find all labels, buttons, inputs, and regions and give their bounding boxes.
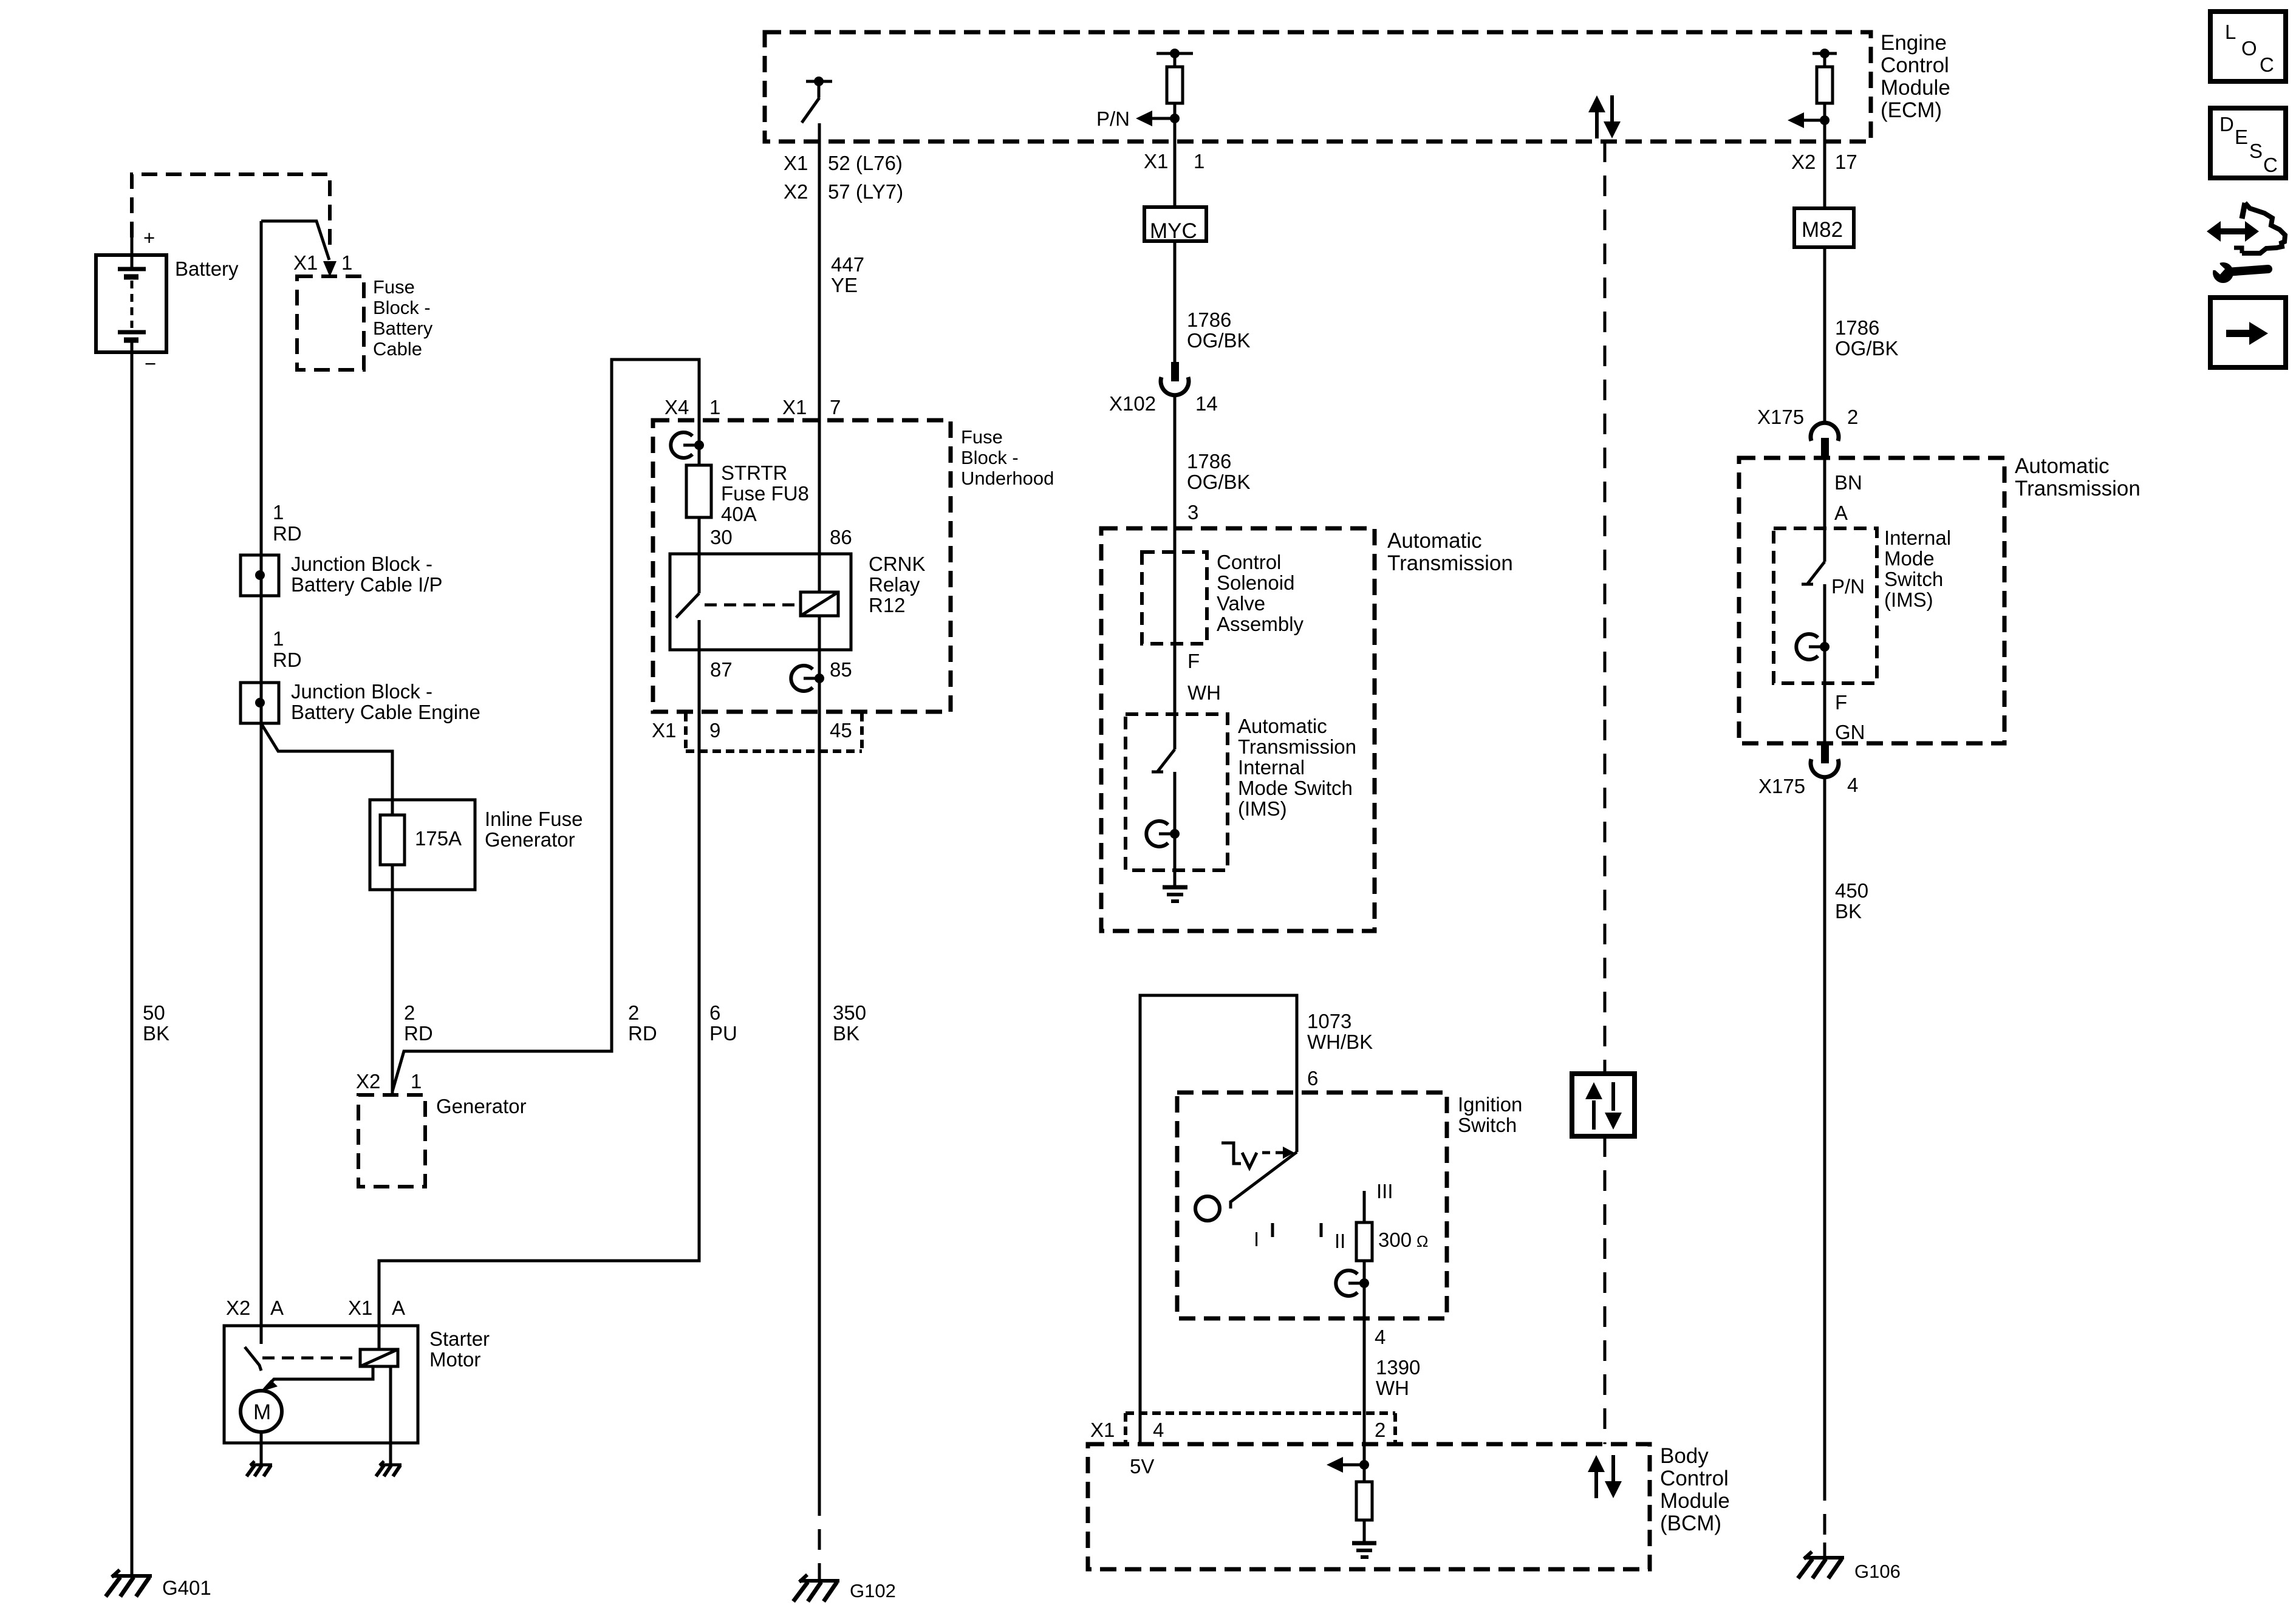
svg-text:Mode Switch: Mode Switch [1238, 777, 1353, 799]
svg-text:Module: Module [1881, 76, 1950, 100]
svg-text:P/N: P/N [1096, 107, 1130, 130]
svg-text:Underhood: Underhood [961, 468, 1054, 489]
clip junction (IMS middle) [1146, 821, 1180, 847]
svg-text:GN: GN [1835, 721, 1865, 743]
svg-text:BK: BK [143, 1022, 169, 1045]
connector X1 bracket (fuse block underhood bottom) [686, 713, 862, 751]
svg-text:S: S [2249, 140, 2263, 162]
svg-text:R12: R12 [869, 594, 906, 616]
svg-text:X2: X2 [226, 1297, 250, 1319]
svg-text:Inline Fuse: Inline Fuse [485, 808, 583, 830]
svg-text:X102: X102 [1109, 392, 1156, 415]
body control module BCM (dashed box) [1088, 1444, 1650, 1569]
wire 50 BK battery negative to G401 [131, 340, 134, 1576]
svg-text:X1: X1 [348, 1297, 372, 1319]
resistor (ECM internal, right) [1817, 53, 1833, 141]
battery Battery [96, 227, 239, 375]
wire 1390 WH ignition to BCM pin 2 [1363, 1318, 1366, 1465]
icon box LOC [2210, 12, 2286, 81]
ECM starter driver switch [802, 77, 832, 123]
svg-text:1390: 1390 [1376, 1356, 1420, 1379]
svg-text:II: II [1334, 1230, 1345, 1252]
label Fuse Block - Underhood [961, 426, 1054, 489]
starter solenoid dashed link [262, 1357, 360, 1360]
ground (IMS internal, 3-bar) [1163, 887, 1187, 901]
svg-text:M: M [253, 1400, 271, 1424]
svg-text:Control: Control [1217, 551, 1281, 573]
IMS switch blade [1152, 749, 1175, 834]
serial data link box with arrows [1572, 1074, 1635, 1136]
svg-text:F: F [1187, 650, 1200, 672]
svg-text:G102: G102 [850, 1580, 896, 1601]
svg-text:52 (L76): 52 (L76) [828, 152, 903, 174]
svg-text:1786: 1786 [1835, 316, 1879, 339]
label Ignition Switch [1458, 1093, 1522, 1136]
pin labels X1 52 (L76) / X2 57 (LY7) [784, 152, 903, 203]
internal mode switch IMS (dashed box, right) [1774, 528, 1877, 683]
svg-text:(BCM): (BCM) [1660, 1512, 1721, 1535]
svg-text:YE: YE [831, 274, 858, 296]
relay coil [801, 592, 838, 616]
svg-text:4: 4 [1847, 774, 1858, 796]
wire inline fuse to generator X2-1 [391, 865, 394, 1093]
wire IMS to internal ground [1174, 834, 1177, 887]
svg-text:5V: 5V [1130, 1455, 1154, 1478]
svg-text:7: 7 [830, 396, 841, 418]
ground G102 [793, 1575, 896, 1601]
svg-text:Motor: Motor [429, 1348, 480, 1371]
resistor (ECM internal, P/N) [1167, 53, 1183, 141]
svg-text:45: 45 [830, 719, 852, 742]
svg-text:1: 1 [273, 501, 284, 523]
svg-text:X1: X1 [1090, 1419, 1115, 1441]
svg-text:OG/BK: OG/BK [1835, 337, 1899, 360]
ground (starter motor left) [247, 1461, 272, 1476]
clip junction on relay 85 [791, 666, 824, 691]
relay CRNK R12 box [670, 553, 926, 650]
automatic transmission (dashed box, middle) [1101, 528, 1375, 931]
svg-text:BK: BK [833, 1022, 859, 1045]
svg-text:G106: G106 [1854, 1561, 1901, 1582]
svg-text:Battery: Battery [175, 257, 239, 280]
ignition switch (dashed box) [1177, 1093, 1447, 1318]
svg-text:Internal: Internal [1238, 756, 1305, 779]
svg-text:Module: Module [1660, 1489, 1730, 1513]
svg-text:1: 1 [709, 396, 720, 418]
svg-text:Cable: Cable [373, 338, 422, 360]
svg-text:Fuse: Fuse [961, 426, 1003, 448]
svg-text:Block -: Block - [961, 447, 1019, 468]
BCM input arrow on 1390 WH [1327, 1457, 1369, 1473]
svg-text:Generator: Generator [436, 1095, 527, 1117]
engine control module ECM (dashed box) [765, 32, 1871, 141]
svg-text:OG/BK: OG/BK [1187, 329, 1251, 352]
wire F GN to X175-4 [1823, 647, 1826, 745]
wire through solenoid assembly [1174, 528, 1177, 749]
svg-text:4: 4 [1375, 1326, 1385, 1348]
svg-text:40A: 40A [721, 503, 757, 525]
svg-text:CRNK: CRNK [869, 553, 926, 575]
label Fuse Block - Battery Cable [373, 276, 433, 360]
starter motor [224, 1326, 490, 1443]
wire ECM X1-1 to MYC [1174, 141, 1177, 207]
svg-text:Battery Cable Engine: Battery Cable Engine [291, 701, 480, 723]
clip junction (IMS right) [1796, 634, 1830, 660]
svg-text:MYC: MYC [1150, 219, 1197, 243]
splice pack M82 [1794, 208, 1854, 247]
svg-text:RD: RD [273, 522, 302, 545]
svg-text:BK: BK [1835, 900, 1862, 922]
connector X175 pin 2 [1757, 406, 1858, 456]
svg-text:Valve: Valve [1217, 592, 1265, 615]
fuse STRTR FU8 40A [686, 420, 809, 554]
connector X1 bracket (BCM top) [1126, 1413, 1395, 1444]
svg-text:D: D [2219, 113, 2234, 135]
svg-text:Engine: Engine [1881, 31, 1947, 55]
label Automatic Transmission Internal Mode Switch (IMS) [1238, 715, 1356, 820]
svg-text:X1: X1 [782, 396, 807, 418]
svg-text:Junction Block -: Junction Block - [291, 680, 432, 703]
ground G106 [1798, 1552, 1901, 1582]
svg-text:Generator: Generator [485, 828, 575, 851]
svg-text:Ignition: Ignition [1458, 1093, 1522, 1116]
automatic transmission (dashed box, right) [1739, 458, 2004, 743]
svg-text:1: 1 [1194, 150, 1204, 172]
icon double arrow [2207, 221, 2259, 242]
svg-text:Relay: Relay [869, 573, 920, 596]
svg-text:1: 1 [411, 1070, 422, 1093]
connector X102 pin 14 [1109, 362, 1218, 528]
wire 1073 WH/BK BCM X1-4 to ignition switch pin 6 [1140, 995, 1297, 1444]
svg-text:17: 17 [1835, 151, 1857, 173]
svg-text:(IMS): (IMS) [1884, 588, 1933, 611]
ground (starter motor right) [376, 1461, 401, 1476]
svg-text:C: C [2263, 154, 2278, 176]
splice pack MYC [1144, 207, 1206, 243]
icon box DESC [2210, 108, 2286, 178]
svg-text:1: 1 [341, 251, 352, 274]
junction block - battery cable I/P [241, 553, 442, 596]
svg-text:A: A [1834, 502, 1848, 524]
relay dashed link [705, 604, 800, 607]
svg-text:Solenoid: Solenoid [1217, 571, 1294, 594]
svg-text:85: 85 [830, 658, 852, 681]
svg-text:350: 350 [833, 1001, 866, 1024]
svg-text:30: 30 [710, 526, 733, 548]
svg-text:Automatic: Automatic [1238, 715, 1327, 737]
IMS (dashed box, middle) [1126, 714, 1228, 870]
wire ECM X2-17 to M82 [1823, 141, 1826, 208]
svg-text:X2: X2 [356, 1070, 380, 1093]
svg-text:C: C [2260, 53, 2274, 76]
svg-text:Body: Body [1660, 1444, 1709, 1468]
svg-text:3: 3 [1187, 501, 1198, 523]
clip junction (ignition switch) [1336, 1270, 1369, 1296]
svg-text:X4: X4 [665, 396, 689, 418]
svg-text:Battery: Battery [373, 318, 433, 339]
wire 447 YE ECM to relay coil 86 [818, 123, 821, 592]
wire 1786 OG/BK M82 to X175-2 [1823, 247, 1826, 423]
wire BN into IMS [1823, 456, 1826, 562]
svg-text:RD: RD [628, 1022, 657, 1045]
svg-text:4: 4 [1153, 1419, 1164, 1441]
wire 350 BK relay 85 to G102 [818, 616, 821, 1581]
svg-text:OG/BK: OG/BK [1187, 471, 1251, 493]
svg-text:X2: X2 [1791, 151, 1816, 173]
generator (dashed box) [358, 1095, 425, 1187]
BCM serial data arrows [1588, 1455, 1622, 1498]
label Control Solenoid Valve Assembly [1217, 551, 1304, 635]
label Body Control Module (BCM) [1660, 1444, 1730, 1535]
label Engine Control Module (ECM) [1881, 31, 1950, 122]
svg-text:Battery Cable I/P: Battery Cable I/P [291, 573, 442, 596]
svg-text:+: + [143, 227, 155, 249]
wire solenoid to ground (right) [389, 1366, 392, 1465]
svg-text:2: 2 [628, 1001, 639, 1024]
ECM right input arrow [1788, 112, 1830, 128]
svg-text:Control: Control [1660, 1467, 1729, 1490]
resistor 300 ohm [1356, 1191, 1428, 1318]
relay contact blade [676, 554, 699, 650]
svg-text:X175: X175 [1757, 406, 1804, 428]
icon wrench [2209, 259, 2268, 283]
svg-text:447: 447 [831, 253, 864, 276]
svg-text:2: 2 [1847, 406, 1858, 428]
svg-text:F: F [1835, 691, 1847, 714]
svg-text:STRTR: STRTR [721, 462, 787, 484]
wire 2 RD junction block engine to inline fuse [262, 724, 392, 815]
svg-text:I: I [1254, 1228, 1259, 1250]
svg-text:14: 14 [1195, 392, 1218, 415]
battery dashed positive cable [132, 174, 330, 250]
svg-text:Fuse FU8: Fuse FU8 [721, 482, 809, 505]
svg-text:1: 1 [273, 627, 284, 650]
svg-text:Ω: Ω [1416, 1232, 1428, 1250]
svg-text:Automatic: Automatic [2015, 454, 2110, 478]
svg-text:300: 300 [1378, 1229, 1412, 1251]
svg-text:2: 2 [404, 1001, 415, 1024]
svg-text:Transmission: Transmission [1238, 735, 1356, 758]
ECM P-N output: junction bar [1157, 49, 1193, 58]
ECM serial data arrows [1588, 95, 1621, 138]
svg-text:Internal: Internal [1884, 527, 1951, 549]
icon vehicle outline [2234, 203, 2285, 253]
wire 450 BK to G106 [1823, 778, 1826, 1558]
svg-text:1786: 1786 [1187, 309, 1231, 331]
svg-text:X1: X1 [1144, 150, 1168, 172]
serial data dashed line ECM to BCM [1604, 141, 1607, 1444]
label Internal Mode Switch (IMS) [1884, 527, 1951, 611]
svg-text:A: A [392, 1297, 405, 1319]
svg-text:9: 9 [709, 719, 720, 742]
wire motor to ground [260, 1432, 263, 1465]
motor M [241, 1391, 282, 1432]
fuse block - battery cable (dashed box) [297, 276, 364, 370]
clip junction on X4-1 feed [671, 432, 704, 458]
svg-text:X1: X1 [293, 251, 318, 274]
svg-text:6: 6 [1307, 1067, 1318, 1089]
inline fuse generator 175A [370, 800, 583, 890]
svg-text:−: − [145, 352, 156, 375]
svg-text:O: O [2241, 37, 2257, 60]
svg-text:Transmission: Transmission [2015, 477, 2141, 500]
wire 2 RD fuse block X4-1 to generator X2-1 [392, 360, 699, 1091]
svg-text:Junction Block -: Junction Block - [291, 553, 432, 575]
svg-text:X1: X1 [784, 152, 808, 174]
ECM right output: junction bar [1813, 49, 1837, 58]
wire solenoid coil to motor with arrowhead [260, 1366, 373, 1392]
svg-text:X2: X2 [784, 180, 808, 203]
svg-text:WH: WH [1376, 1377, 1409, 1399]
svg-text:2: 2 [1375, 1419, 1385, 1441]
svg-text:Transmission: Transmission [1387, 551, 1513, 575]
svg-text:1073: 1073 [1307, 1010, 1351, 1032]
label Automatic Transmission (right) [2015, 454, 2141, 500]
fuse block - underhood (dashed box) [653, 420, 951, 712]
label Automatic Transmission (middle) [1387, 529, 1513, 575]
ignition detent symbol [1221, 1143, 1294, 1168]
ignition switch blade and rotor [1195, 1152, 1297, 1221]
svg-text:III: III [1376, 1180, 1393, 1202]
svg-text:Control: Control [1881, 53, 1949, 77]
svg-text:WH/BK: WH/BK [1307, 1031, 1373, 1053]
svg-text:Switch: Switch [1884, 568, 1943, 590]
svg-text:P/N: P/N [1831, 575, 1865, 598]
pin labels X1 4 2 (BCM) [1090, 1419, 1385, 1441]
starter solenoid coil [360, 1326, 398, 1366]
svg-text:87: 87 [710, 658, 733, 681]
svg-text:Mode: Mode [1884, 547, 1935, 570]
svg-text:450: 450 [1835, 879, 1868, 902]
svg-text:Switch: Switch [1458, 1114, 1517, 1136]
ground (BCM internal, 3-bar) [1352, 1543, 1376, 1557]
svg-text:PU: PU [709, 1022, 737, 1045]
svg-text:G401: G401 [162, 1577, 211, 1599]
IMS switch blade (right) P/N [1802, 562, 1865, 647]
svg-text:X1: X1 [652, 719, 676, 742]
ignition position marks I II III [1254, 1180, 1393, 1252]
svg-text:Automatic: Automatic [1387, 529, 1482, 553]
resistor (BCM internal) [1356, 1465, 1372, 1543]
svg-text:L: L [2225, 21, 2236, 43]
svg-text:BN: BN [1834, 471, 1862, 494]
svg-text:RD: RD [273, 649, 302, 671]
wire battery node to fuse block battery cable X1-1 [261, 221, 337, 277]
connector X175 pin 4 [1758, 745, 1858, 797]
svg-text:A: A [270, 1297, 284, 1319]
svg-text:Starter: Starter [429, 1328, 490, 1350]
svg-text:50: 50 [143, 1001, 165, 1024]
svg-text:57 (LY7): 57 (LY7) [828, 180, 903, 203]
starter solenoid contact [245, 1326, 261, 1371]
svg-text:Block -: Block - [373, 297, 431, 318]
svg-text:RD: RD [404, 1022, 433, 1045]
svg-text:X175: X175 [1758, 775, 1805, 797]
svg-text:175A: 175A [415, 827, 462, 850]
svg-text:Fuse: Fuse [373, 276, 415, 298]
wire 1 RD battery node down to starter X2-A [260, 221, 263, 1326]
P-N arrow [1096, 107, 1180, 130]
svg-text:(ECM): (ECM) [1881, 98, 1942, 122]
wire 1786 OG/BK MYC to X102 [1174, 241, 1177, 363]
svg-text:E: E [2235, 126, 2248, 148]
wire 6 PU relay 87 to starter X1-A [379, 650, 699, 1326]
svg-text:Assembly: Assembly [1217, 613, 1304, 635]
control solenoid valve assembly (dashed box) [1142, 552, 1207, 644]
svg-text:86: 86 [830, 526, 852, 548]
svg-text:M82: M82 [1802, 218, 1843, 242]
pin X1 9 45 labels [652, 719, 852, 742]
junction block - battery cable engine [241, 680, 480, 723]
svg-text:(IMS): (IMS) [1238, 797, 1287, 820]
svg-text:WH: WH [1187, 681, 1221, 704]
ground G401 [106, 1570, 211, 1599]
icon box right arrow [2210, 298, 2286, 367]
svg-text:1786: 1786 [1187, 450, 1231, 472]
svg-text:6: 6 [709, 1001, 720, 1024]
